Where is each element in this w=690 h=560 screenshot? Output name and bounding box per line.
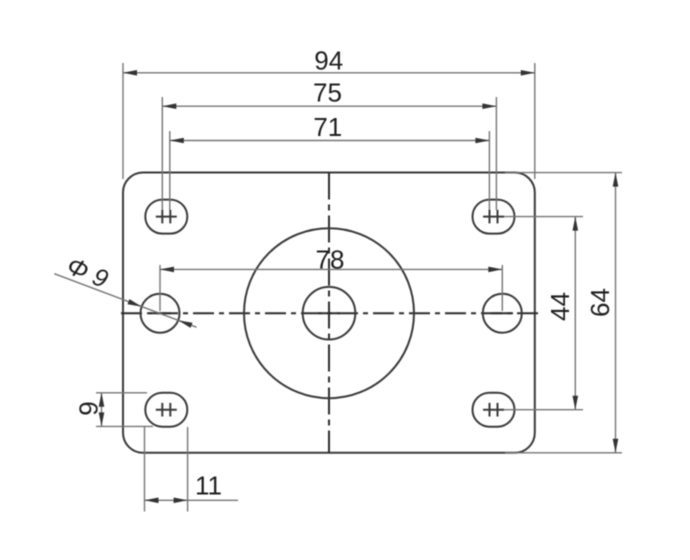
- big circle: [244, 228, 414, 398]
- dim 9 left: [96, 393, 153, 427]
- slot BR cross: [483, 403, 504, 417]
- svg-text:64: 64: [585, 288, 615, 317]
- dim 71: [170, 131, 490, 210]
- slot TL cross: [156, 210, 177, 224]
- hole circle mid-left: [141, 294, 180, 333]
- centerline horizontal: [121, 312, 541, 314]
- dim 75: [162, 97, 496, 210]
- leader phi9: [54, 274, 196, 328]
- dim 64: [505, 173, 622, 453]
- center dash mid-left hole: [149, 312, 171, 314]
- svg-text:94: 94: [314, 45, 343, 75]
- svg-text:75: 75: [313, 78, 342, 108]
- svg-text:78: 78: [316, 244, 345, 274]
- inner circle: [303, 287, 356, 340]
- hole slot top-left: [145, 200, 187, 234]
- dim 78: [160, 265, 502, 311]
- slot TR cross: [483, 210, 504, 224]
- hole circle mid-right: [483, 294, 522, 333]
- hole slot top-right: [473, 200, 515, 234]
- center dash mid-right hole: [491, 312, 513, 314]
- center cross of big circle: [318, 302, 340, 325]
- plate outline: [123, 173, 535, 453]
- hole slot bottom-left: [145, 393, 187, 427]
- svg-text:9: 9: [74, 401, 104, 415]
- dim 94: [123, 63, 535, 179]
- svg-text:44: 44: [545, 292, 575, 321]
- centerline vertical: [328, 173, 330, 453]
- slot BL cross: [156, 403, 177, 417]
- dim 44: [504, 217, 583, 410]
- svg-text:11: 11: [195, 471, 222, 501]
- dim 11 bottom: [145, 427, 239, 512]
- hole slot bottom-right: [473, 393, 515, 427]
- svg-text:71: 71: [313, 112, 342, 142]
